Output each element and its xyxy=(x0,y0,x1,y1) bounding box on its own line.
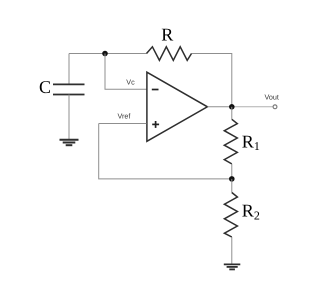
node Vout junction dot xyxy=(229,104,235,110)
wire from top wire down to capacitor top plate xyxy=(68,54,70,85)
wire top right from resistor R to right corner down to output node xyxy=(192,54,232,107)
wire R1 to divider node xyxy=(231,164,233,179)
op-amp non-inverting pin plus sign xyxy=(152,121,159,128)
capacitor C plates xyxy=(53,84,85,94)
resistor R1 zigzag xyxy=(224,119,237,164)
wire feedback left down and across to divider node xyxy=(99,124,232,179)
svg-text:Vc: Vc xyxy=(126,78,135,87)
ground below capacitor xyxy=(60,140,79,145)
svg-text:C: C xyxy=(39,77,51,97)
resistor R zigzag xyxy=(147,47,192,61)
wire output node down to resistor R1 xyxy=(231,107,233,120)
svg-text:R: R xyxy=(161,24,173,44)
svg-text:R2: R2 xyxy=(242,201,260,223)
terminal Vout open circle xyxy=(273,105,277,109)
wire output stub to terminal xyxy=(232,106,273,108)
op-amp U1 triangle xyxy=(147,72,208,141)
svg-text:Vout: Vout xyxy=(265,93,279,102)
node divider junction dot xyxy=(229,176,235,182)
wire non-inverting input xyxy=(99,123,147,125)
resistor R2 zigzag xyxy=(224,193,237,238)
wire op-amp output to node xyxy=(208,106,232,108)
wire R2 to ground xyxy=(231,237,233,264)
wire from capacitor bottom plate to ground xyxy=(68,95,70,140)
svg-text:Vref: Vref xyxy=(118,111,131,120)
wire divider node to resistor R2 xyxy=(231,179,233,193)
node A junction dot on top wire xyxy=(102,51,108,57)
wire from node A down to inverting input xyxy=(105,54,147,90)
wire top from capacitor to resistor R xyxy=(69,53,147,55)
ground below R2 xyxy=(224,264,241,269)
op-amp inverting pin minus sign xyxy=(152,89,159,91)
svg-text:R1: R1 xyxy=(242,132,260,154)
